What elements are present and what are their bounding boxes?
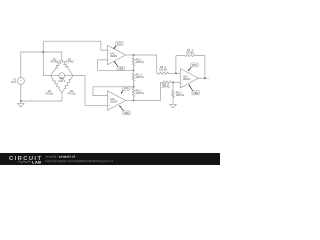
- svg-text:VCC: VCC: [192, 64, 197, 67]
- wire OA2 out: [126, 100, 134, 102]
- svg-text:100 kΩ: 100 kΩ: [162, 86, 170, 89]
- svg-text:100 kΩ: 100 kΩ: [186, 51, 194, 54]
- wire bridge-left to OA1+: [43, 41, 107, 52]
- svg-text:LM324: LM324: [110, 55, 118, 58]
- wire to OA3-: [176, 72, 180, 74]
- svg-text:470 kΩ: 470 kΩ: [50, 61, 58, 64]
- op-amp OA2: [108, 91, 126, 110]
- svg-text:100 kΩ: 100 kΩ: [136, 61, 144, 64]
- svg-text:http://circuitlab.com/c/49dbb5: http://circuitlab.com/c/49dbb5m5bqh6/pro…: [46, 159, 114, 163]
- wire OA1 out to R5_2: [134, 55, 157, 73]
- power flag OA1 VEE: [114, 61, 124, 70]
- node gnd junction: [20, 100, 22, 102]
- wire to OA3+: [173, 81, 180, 83]
- ground G1: [18, 101, 24, 107]
- svg-text:100 kΩ: 100 kΩ: [136, 92, 144, 95]
- power flag OA1 VCC: [114, 42, 123, 49]
- svg-text:LM324: LM324: [110, 100, 118, 103]
- wire down to bridge left: [43, 52, 50, 76]
- svg-text:VCC: VCC: [117, 42, 122, 45]
- node node B: [133, 86, 135, 88]
- svg-text:100 kΩ: 100 kΩ: [159, 68, 167, 71]
- wire OA1 out: [126, 54, 134, 56]
- resistor R6_2: [160, 81, 173, 83]
- resistor R6_1: [132, 87, 135, 101]
- resistor R8_2: [172, 82, 174, 102]
- power flag OA3 VCC: [188, 63, 198, 71]
- wire OA2 out to R6_2: [134, 82, 161, 100]
- resistor R1: [51, 59, 62, 75]
- CircuitLab logo: [9, 156, 41, 164]
- op-amp OA3: [180, 69, 198, 88]
- resistor R2: [62, 59, 73, 75]
- node chain bottom: [133, 100, 135, 102]
- svg-text:100 kΩ: 100 kΩ: [176, 94, 184, 97]
- wire node B to OA2-: [93, 87, 134, 96]
- power flag OA2 VCC: [121, 86, 130, 93]
- voltmeter VM1: [51, 73, 73, 79]
- svg-text:VEE: VEE: [124, 112, 129, 115]
- wire fb right: [204, 56, 206, 79]
- wire V1+ to bridge top: [21, 52, 62, 77]
- power flag OA3 VEE: [189, 85, 200, 95]
- wire fb left: [175, 56, 177, 74]
- resistor R5_2: [157, 72, 176, 74]
- resistor RG_1: [132, 70, 135, 87]
- wire output stub: [207, 77, 209, 79]
- wire V1- down: [20, 85, 22, 101]
- svg-text:LM324: LM324: [183, 78, 191, 81]
- wire bottom rail: [21, 93, 62, 101]
- op-amp OA1: [108, 45, 126, 64]
- voltage source V1: [17, 77, 24, 85]
- node fb junction: [175, 72, 177, 74]
- node OA3+ node: [172, 81, 174, 83]
- svg-text:VEE: VEE: [193, 92, 198, 95]
- node chain top: [133, 54, 135, 56]
- node node A: [133, 69, 135, 71]
- node crossing junction: [42, 51, 44, 53]
- svg-text:10 V: 10 V: [11, 81, 16, 84]
- svg-text:VCC: VCC: [124, 87, 129, 90]
- wire bridge-right to OA2+: [73, 76, 108, 106]
- ground G2: [170, 102, 176, 108]
- node output node: [204, 77, 206, 79]
- wire OA1- feedback: [98, 60, 134, 70]
- svg-text:−: −: [20, 81, 22, 85]
- resistor R5_1: [132, 55, 135, 70]
- svg-text:0.00 V: 0.00 V: [58, 80, 66, 83]
- svg-text:470 kΩ: 470 kΩ: [66, 61, 74, 64]
- resistor R4: [62, 76, 73, 93]
- resistor R3: [51, 76, 62, 93]
- footer bar: [0, 153, 220, 165]
- svg-text:LAB: LAB: [32, 159, 41, 164]
- power flag OA2 VEE: [119, 105, 130, 114]
- svg-text:100 kΩ: 100 kΩ: [136, 76, 144, 79]
- svg-text:470 kΩ: 470 kΩ: [68, 93, 76, 96]
- svg-text:470 kΩ: 470 kΩ: [45, 93, 53, 96]
- resistor R7_1: [176, 54, 205, 56]
- wire output: [198, 77, 207, 79]
